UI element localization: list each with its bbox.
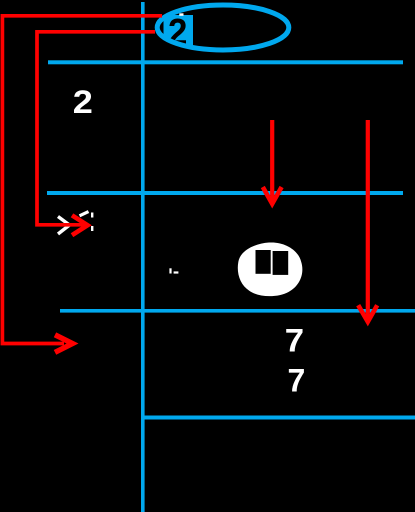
red bracket path B — [37, 32, 155, 225]
white speck lower — [91, 226, 93, 231]
svg-text:2: 2 — [73, 84, 93, 120]
blue horizontal line 4 — [141, 416, 415, 420]
red arrowhead A — [55, 335, 73, 353]
white tick remnant mid — [169, 268, 171, 273]
red down arrow D head — [358, 305, 377, 322]
pause icon right black bar — [273, 251, 289, 275]
blue vertical grid line — [141, 2, 145, 512]
blue horizontal line 3 — [60, 309, 415, 313]
white dash above circled 2 — [179, 13, 183, 16]
red arrowhead B — [72, 215, 88, 235]
red bracket path A — [2, 16, 162, 344]
blue ellipse around 2 — [157, 5, 289, 50]
red down arrow C shaft — [270, 120, 274, 200]
pause icon left black bar — [256, 250, 271, 274]
white dash remnant mid — [174, 271, 179, 273]
svg-text:7: 7 — [288, 363, 306, 399]
white speck upper — [91, 213, 93, 218]
blue horizontal line 1 — [48, 60, 403, 64]
white blob pause icon — [238, 242, 303, 296]
blue highlight box — [164, 15, 194, 47]
red down arrow C head — [263, 187, 282, 204]
svg-text:7: 7 — [285, 323, 304, 359]
white chevron remnant — [58, 217, 70, 235]
red down arrow D shaft — [366, 120, 370, 318]
white diagonal dash remnant — [80, 212, 89, 216]
blue horizontal line 2 — [47, 191, 403, 195]
